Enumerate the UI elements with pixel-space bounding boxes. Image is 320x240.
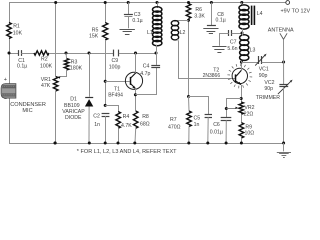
label CONDENSER <box>10 102 46 108</box>
svg-text:VC1: VC1 <box>259 67 269 73</box>
transistor T1 emitter <box>130 83 136 89</box>
wire bottom ground rail <box>9 143 284 145</box>
capacitor C4 <box>151 66 160 68</box>
label VC1 <box>259 67 269 73</box>
label C8 <box>217 12 224 18</box>
capacitor C2 <box>102 114 110 117</box>
svg-text:L2: L2 <box>180 30 186 36</box>
label L1 <box>147 30 153 36</box>
node R3 junction <box>65 52 68 55</box>
node R9 bottom rail <box>240 142 243 145</box>
label 68ohm <box>140 121 150 127</box>
node L4-L3-C7 junction <box>241 32 244 35</box>
wire R5 to base node <box>105 40 107 105</box>
ground under C8 <box>203 29 218 34</box>
label 0.1u C3 <box>132 18 142 24</box>
svg-text:2N3866: 2N3866 <box>203 73 221 79</box>
wire C7 right <box>232 33 242 35</box>
node VR1 bottom rail <box>54 142 57 145</box>
svg-text:5.6n: 5.6n <box>227 46 237 52</box>
core bar 1 of L4 <box>251 6 253 25</box>
node antenna junction <box>282 61 285 64</box>
label MIC <box>22 108 32 114</box>
node R7 bottom rail <box>187 142 190 145</box>
capacitor C5 <box>205 115 212 118</box>
svg-text:R1: R1 <box>13 23 20 29</box>
capacitor C1 <box>19 50 22 56</box>
svg-text:D1: D1 <box>70 97 77 103</box>
label D1 <box>70 97 77 103</box>
node L2 tap <box>187 19 190 22</box>
svg-text:L3: L3 <box>250 47 256 53</box>
node T2 collector junction <box>240 61 243 64</box>
label TRIMMER <box>256 95 280 101</box>
label T2 <box>213 68 219 74</box>
trimmer VC2 <box>279 85 288 87</box>
wiper arrow VR1 <box>57 77 60 79</box>
node mic-R1 junction <box>8 52 11 55</box>
label R1 <box>13 23 20 29</box>
label VR1 <box>41 77 51 83</box>
label VARICAP <box>62 109 85 115</box>
svg-text:0.01µ: 0.01µ <box>210 130 223 136</box>
wire R9 bottom <box>241 138 243 143</box>
label R6 <box>195 7 202 13</box>
wire C3 to ground <box>128 17 130 29</box>
inductor L2 <box>171 21 178 40</box>
wire rail to earth <box>283 143 285 151</box>
preset VR2 <box>239 102 244 114</box>
label R2 <box>41 57 48 63</box>
label BB109 <box>64 103 80 109</box>
label 0.01u <box>210 130 223 136</box>
wire varicap top <box>89 53 91 97</box>
wire R3 bottom to VR1 wiper <box>60 70 67 77</box>
label C5 <box>194 115 201 121</box>
wire T1 emitter down <box>135 89 137 111</box>
transistor T1 body <box>125 72 142 89</box>
svg-text:* FOR L1, L2, L3 AND L4, REFER: * FOR L1, L2, L3 AND L4, REFER TEXT <box>77 149 177 155</box>
svg-text:15K: 15K <box>89 34 99 40</box>
label 0.1u C8 <box>216 18 226 24</box>
transistor T2 collector <box>236 70 241 76</box>
antenna <box>280 33 287 39</box>
wire R8 bottom <box>134 128 137 143</box>
wire R6 to L2 node <box>188 19 190 97</box>
node C2 bottom rail <box>104 142 107 145</box>
svg-text:VC2: VC2 <box>264 80 274 86</box>
label 22ohm <box>244 112 254 118</box>
transistor T1 collector <box>130 73 136 79</box>
wire left rail lower <box>9 98 11 144</box>
svg-text:10K: 10K <box>13 31 23 37</box>
svg-text:VR1: VR1 <box>41 77 51 83</box>
label R5 <box>92 28 99 34</box>
svg-text:MIC: MIC <box>22 108 32 114</box>
svg-text:R8: R8 <box>142 114 149 120</box>
inductor L4 <box>239 5 249 29</box>
wire mic to C1 <box>9 53 18 55</box>
svg-text:DIODE: DIODE <box>65 115 82 121</box>
svg-text:47K: 47K <box>41 83 51 89</box>
wire emitter to C6 elbow <box>227 99 242 118</box>
svg-text:VR2: VR2 <box>244 105 254 111</box>
label 4.7K R4 <box>121 123 132 129</box>
wire R2 to C9 <box>49 53 113 55</box>
wire L3 bottom lead <box>241 60 243 62</box>
node R8 bottom rail <box>133 142 136 145</box>
resistor R8 <box>133 111 138 128</box>
wire VR1 to ground rail <box>55 91 57 143</box>
wire C8 top <box>211 3 213 26</box>
wire R7 bottom <box>188 127 190 144</box>
trimmer VC1 <box>259 56 262 64</box>
wire T2 collector up <box>241 62 243 70</box>
wire C7 left <box>220 34 229 46</box>
trimmer VC1 arrow <box>255 54 266 66</box>
wire T1 collector up <box>135 53 137 73</box>
svg-text:10Ω: 10Ω <box>245 130 255 136</box>
svg-text:VARICAP: VARICAP <box>62 109 85 115</box>
label 47K <box>41 83 51 89</box>
svg-text:L4: L4 <box>257 11 263 17</box>
core bar 2 of L4 <box>254 6 256 25</box>
wire C4 top <box>156 53 158 65</box>
varicap D1 cathode bar <box>85 97 93 99</box>
svg-text:BF494: BF494 <box>108 93 123 99</box>
svg-text:BB109: BB109 <box>64 103 80 109</box>
transistor T1 base bar <box>130 77 132 85</box>
varicap D1 <box>85 99 93 106</box>
label T1 <box>114 87 120 93</box>
wire top supply rail <box>9 2 286 4</box>
wire VR1 line top <box>55 3 57 77</box>
node base-C2 junction <box>104 104 107 107</box>
wire VR2 to R9 <box>241 114 243 122</box>
wire R5 top <box>105 3 107 23</box>
svg-text:90p: 90p <box>264 86 273 92</box>
wire R7 top <box>188 97 191 112</box>
wire L1 bottom lead <box>156 45 158 53</box>
node emitter junction <box>134 93 137 96</box>
svg-text:R6: R6 <box>195 7 202 13</box>
capacitor C8 <box>207 25 216 27</box>
terminal +9V <box>286 1 290 5</box>
svg-text:C5: C5 <box>194 115 201 121</box>
svg-text:R4: R4 <box>123 114 130 120</box>
wire C9 to L1 node <box>119 53 156 55</box>
label 0.1u C1 <box>17 63 27 69</box>
label 90p VC2 <box>264 86 273 92</box>
capacitor C3 <box>124 15 133 17</box>
wire C2 bottom <box>105 116 107 143</box>
label C1 <box>18 58 25 64</box>
node VR1 top rail <box>54 1 57 4</box>
wire C6 bottom <box>225 120 227 143</box>
label L4 <box>257 11 263 17</box>
svg-text:4.7K: 4.7K <box>121 123 132 129</box>
label R7 <box>170 117 177 123</box>
svg-text:22Ω: 22Ω <box>244 112 254 118</box>
label 2N3866 <box>203 73 221 79</box>
wire left rail upper <box>9 3 11 24</box>
label VR2 <box>244 105 254 111</box>
label R8 <box>142 114 149 120</box>
condenser mic <box>1 84 16 99</box>
svg-text:470Ω: 470Ω <box>168 125 181 131</box>
wiper wire VR2 <box>226 108 236 110</box>
footnote <box>77 149 177 155</box>
label L2 <box>180 30 186 36</box>
svg-text:ANTENNA: ANTENNA <box>268 28 294 34</box>
node C3 top rail <box>127 1 130 4</box>
label ANTENNA <box>268 28 294 34</box>
wire VC2 down to rail <box>283 87 285 143</box>
wire T2 emitter down <box>241 85 243 102</box>
wire C3 top <box>128 3 130 15</box>
label C4 <box>143 64 150 70</box>
label R4 <box>123 114 130 120</box>
resistor R5 <box>103 23 108 41</box>
transistor T2 base bar <box>235 74 237 82</box>
node L1-C4 junction <box>155 52 158 55</box>
svg-text:90p: 90p <box>259 73 268 79</box>
svg-text:−: − <box>4 96 7 102</box>
node L4 top rail <box>240 1 243 4</box>
label C2 <box>93 113 100 119</box>
wire L2 bottom to T2 base <box>178 39 236 79</box>
trimmer VC2 arrow <box>278 80 293 95</box>
wire emitter to C4 elbow <box>135 67 156 94</box>
wire junction to C5 <box>189 97 209 115</box>
transistor T2 body <box>232 68 247 83</box>
label mic minus <box>4 96 7 102</box>
label C7 <box>230 39 237 45</box>
node R5 top rail <box>104 1 107 4</box>
label 4.7p <box>140 71 150 77</box>
svg-text:1n: 1n <box>194 122 200 128</box>
capacitor C6 <box>221 118 232 121</box>
resistor R2 <box>34 51 49 55</box>
wire L4 top lead <box>241 3 243 7</box>
svg-text:1n: 1n <box>94 122 100 128</box>
node C5 bottom rail <box>206 142 209 145</box>
svg-text:100K: 100K <box>40 63 53 69</box>
node varicap junction <box>88 52 91 55</box>
label BF494 <box>108 93 123 99</box>
label 100p <box>109 65 121 71</box>
label 5.6n <box>227 46 237 52</box>
node R6-R7 junction <box>187 95 190 98</box>
transistor T2 heatsink burst <box>227 64 252 89</box>
preset VR1 <box>53 77 58 92</box>
resistor R6 <box>186 4 191 19</box>
label C9 <box>112 58 119 64</box>
svg-text:3.3K: 3.3K <box>194 14 205 20</box>
label 1n C2 <box>94 122 100 128</box>
resistor R1 <box>7 23 12 39</box>
svg-text:68Ω: 68Ω <box>140 121 150 127</box>
svg-text:C7: C7 <box>230 39 237 45</box>
label C3 <box>134 12 141 18</box>
node bottom rail mid <box>54 142 57 145</box>
ground under C7 <box>212 47 226 53</box>
label 1n C5 <box>194 122 200 128</box>
label C6 <box>213 122 220 128</box>
label 470ohm <box>168 125 181 131</box>
label +9V TO 12V <box>281 9 311 15</box>
label 15K <box>89 34 99 40</box>
wire R3 top <box>65 53 68 59</box>
svg-text:L1: L1 <box>147 30 153 36</box>
svg-text:0.1µ: 0.1µ <box>17 63 27 69</box>
node varicap bottom rail <box>88 142 91 145</box>
svg-text:TRIMMER: TRIMMER <box>256 95 280 101</box>
node T1 collector junction <box>134 52 137 55</box>
svg-text:4.7p: 4.7p <box>140 71 150 77</box>
label 90p VC1 <box>259 73 268 79</box>
wire L1 top lead <box>157 3 159 9</box>
svg-text:C2: C2 <box>93 113 100 119</box>
wire varicap bottom <box>88 107 90 144</box>
node C8 top rail <box>210 1 213 4</box>
resistor R7 <box>187 111 192 127</box>
wire L4 bottom lead <box>242 29 244 33</box>
node T2 emitter junction <box>240 97 243 100</box>
wire antenna stem <box>283 39 285 84</box>
ground under C3 <box>120 30 135 35</box>
capacitor C9 <box>114 50 119 57</box>
svg-text:+: + <box>4 77 7 83</box>
resistor R3 <box>64 59 69 71</box>
wire L2 top lead <box>175 21 189 22</box>
node ground rail end <box>282 142 285 145</box>
svg-text:0.1µ: 0.1µ <box>132 18 142 24</box>
svg-text:C6: C6 <box>213 122 220 128</box>
label VC2 <box>264 80 274 86</box>
label mic plus <box>4 77 7 83</box>
resistor R4 <box>116 112 121 129</box>
label 3.3K <box>194 14 205 20</box>
label 100K R2 <box>40 63 53 69</box>
svg-text:C9: C9 <box>112 58 119 64</box>
ground earth symbol <box>277 153 291 158</box>
inductor L1 <box>153 7 162 46</box>
wire collector node to VC1 <box>241 62 258 64</box>
label L3 <box>250 47 256 53</box>
node R4 bottom rail <box>117 142 120 145</box>
transistor T2 emitter <box>236 81 241 85</box>
node T1 base <box>104 80 107 83</box>
svg-text:100p: 100p <box>109 65 121 71</box>
node L1 top rail <box>156 1 159 4</box>
svg-text:C4: C4 <box>143 64 150 70</box>
label 180K <box>70 65 83 71</box>
wire T1 base <box>105 81 130 83</box>
wire VC1 to antenna line <box>262 62 284 64</box>
label R9 <box>245 124 252 130</box>
inductor L3 <box>240 35 249 61</box>
wire R4 bottom <box>118 128 120 143</box>
node R6 top rail <box>187 1 190 4</box>
svg-text:180K: 180K <box>70 65 83 71</box>
label DIODE <box>65 115 82 121</box>
wire left rail mid <box>9 39 11 85</box>
svg-text:R2: R2 <box>41 57 48 63</box>
label 10ohm <box>245 130 255 136</box>
wiper arrow VR2 <box>235 107 238 109</box>
node C6 bottom rail <box>225 142 228 145</box>
svg-text:+9V TO 12V: +9V TO 12V <box>281 9 311 15</box>
svg-text:0.1µ: 0.1µ <box>216 18 226 24</box>
label R3 <box>71 60 78 66</box>
resistor R9 <box>239 123 244 138</box>
wire C5 bottom <box>207 117 209 143</box>
capacitor C7 <box>229 30 232 36</box>
wire L3 top lead <box>242 33 244 36</box>
svg-text:R7: R7 <box>170 117 177 123</box>
wire to R4 <box>105 106 118 112</box>
label 10K <box>13 31 23 37</box>
wire C1 to R2 <box>21 53 34 55</box>
node C6-wiper junction <box>225 107 228 110</box>
